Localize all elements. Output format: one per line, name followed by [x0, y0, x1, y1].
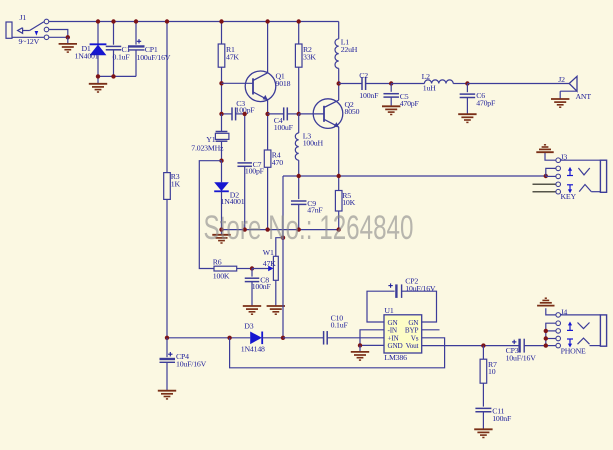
junction J4 pin5 [544, 343, 548, 347]
svg-text:Vout: Vout [406, 342, 419, 350]
junction L1 C2 [337, 81, 341, 85]
ground U1 [351, 345, 369, 360]
pin label Vs [411, 334, 419, 342]
label D2 [230, 191, 239, 200]
svg-text:KEY: KEY [561, 192, 577, 201]
capacitor C11 [475, 408, 491, 429]
crystal Y1 [215, 114, 229, 161]
resistor R1 [218, 44, 225, 67]
svg-text:R6: R6 [213, 258, 222, 267]
connector J1 [6, 19, 49, 39]
svg-text:100pF: 100pF [245, 167, 265, 176]
label L1 value [341, 45, 358, 54]
label C1 [122, 45, 131, 54]
label C1 value [113, 52, 131, 61]
ground J3 [536, 145, 553, 152]
label L3 [303, 132, 312, 141]
label D1 [82, 44, 91, 53]
junction R1 base node [219, 81, 223, 85]
connector J4 [546, 308, 607, 348]
ground C5 [382, 106, 400, 114]
junction top rail R1 [219, 19, 223, 23]
label C8 value [252, 282, 272, 291]
svg-text:W1: W1 [263, 248, 274, 257]
svg-text:10uF/16V: 10uF/16V [176, 359, 207, 368]
label L3 value [303, 138, 324, 147]
capacitor CP2 [367, 283, 437, 322]
label L2 value [423, 83, 436, 92]
wire J1 sleeve [49, 36, 68, 38]
junction Q2 base node [297, 112, 301, 116]
junction gnd bus R4 [265, 227, 269, 231]
inductor L3 [295, 114, 298, 176]
svg-text:-IN: -IN [388, 327, 398, 335]
capacitor C5 [383, 84, 399, 107]
resistor R4 [264, 114, 271, 230]
pin label GN left [388, 319, 399, 327]
resistor R5 [335, 176, 342, 230]
resistor R7 [480, 346, 487, 407]
label PHONE [561, 346, 586, 355]
pin label +IN [388, 334, 400, 342]
junction J4 pin3 [544, 329, 548, 333]
junction gnd bus C7 [243, 227, 247, 231]
diode D2 [214, 161, 229, 230]
svg-text:10uF/16V: 10uF/16V [405, 284, 436, 293]
label C3 [236, 99, 245, 108]
label Q1 value [276, 79, 291, 88]
svg-text:LM386: LM386 [384, 353, 407, 362]
junction R6 C8 W1 [250, 266, 254, 270]
label R2 value [303, 53, 316, 62]
wire Q1 base [222, 82, 254, 84]
svg-text:100K: 100K [213, 272, 230, 281]
label L2 [422, 72, 431, 81]
svg-text:9~12V: 9~12V [19, 37, 40, 46]
label R5 value [342, 198, 355, 207]
resistor R6 [214, 266, 252, 271]
svg-text:10uF/16V: 10uF/16V [506, 354, 537, 363]
wire R2 top [298, 22, 300, 45]
svg-text:470pF: 470pF [476, 99, 496, 108]
wire BYP stub [422, 329, 440, 331]
label C8 [260, 275, 269, 284]
junction bottom C1 [111, 74, 115, 78]
svg-text:L2: L2 [422, 72, 431, 81]
svg-text:1N4001: 1N4001 [75, 52, 99, 61]
svg-text:1uH: 1uH [423, 83, 436, 92]
capacitor C2 [339, 77, 392, 90]
junction top rail R2 [297, 19, 301, 23]
connector J2 [560, 76, 577, 99]
svg-text:J4: J4 [561, 307, 568, 316]
label KEY [561, 192, 577, 201]
junction gnd bus C9 [297, 227, 301, 231]
svg-text:22uH: 22uH [341, 45, 358, 54]
wire Q2 base [299, 113, 324, 115]
svg-text:Store No.: 1264840: Store No.: 1264840 [204, 209, 414, 247]
label R3 value [171, 179, 181, 188]
wire top power rail [49, 21, 339, 23]
resistor R3 [164, 173, 171, 200]
label C2 value [359, 91, 379, 100]
svg-text:100uF: 100uF [274, 123, 294, 132]
label C10 [331, 313, 344, 322]
potentiometer W1 [252, 238, 283, 306]
capacitor C7 [237, 114, 252, 230]
label C9 [307, 199, 316, 208]
ground J2 [551, 99, 569, 107]
ground D2 bus [212, 230, 230, 243]
label R5 [342, 191, 351, 200]
svg-text:+IN: +IN [388, 334, 400, 342]
junction KEY rail J3 [544, 174, 548, 178]
label J4 [561, 307, 568, 316]
wire ground bus [222, 229, 339, 231]
resistor R2 [295, 44, 302, 67]
svg-text:1N4001: 1N4001 [221, 197, 245, 206]
label R3 [171, 172, 180, 181]
svg-text:10K: 10K [342, 198, 355, 207]
junction top rail Q1 collector [265, 19, 269, 23]
junction top rail C1 [111, 19, 115, 23]
capacitor C3 [222, 107, 245, 120]
svg-text:D3: D3 [244, 322, 253, 331]
junction audio rail Vs tap [227, 336, 231, 340]
label U1 [384, 306, 393, 315]
label J1 [20, 13, 27, 22]
label R7 value [488, 367, 496, 376]
capacitor C9 [291, 176, 307, 230]
capacitor C4 [268, 107, 299, 120]
junction top rail D1 [96, 19, 100, 23]
junction gnd bus D2 [219, 227, 223, 231]
svg-text:9018: 9018 [276, 79, 291, 88]
label C6 [476, 91, 485, 100]
svg-text:8050: 8050 [345, 107, 360, 116]
svg-text:C2: C2 [359, 71, 368, 80]
svg-text:J2: J2 [558, 75, 565, 84]
label C7 [253, 160, 262, 169]
label C6 value [476, 99, 496, 108]
junction base net R4 [265, 112, 269, 116]
svg-text:Vs: Vs [411, 334, 419, 342]
junction U1 GND [358, 343, 362, 347]
svg-text:100uH: 100uH [303, 138, 324, 147]
label CP1 [145, 45, 158, 54]
label ANT [576, 92, 592, 101]
svg-text:1K: 1K [171, 179, 181, 188]
label LM386 [384, 353, 407, 362]
wire Vs feed [230, 338, 445, 368]
svg-text:J3: J3 [561, 152, 568, 161]
ground J4 [537, 298, 554, 305]
junction top rail left branch [165, 19, 169, 23]
wire J1 ring [49, 30, 68, 38]
wire R2 bottom [298, 67, 300, 114]
junction gnd bus R5 [337, 227, 341, 231]
svg-text:J1: J1 [20, 13, 27, 22]
transistor Q2 [313, 84, 343, 177]
svg-text:100uF/16V: 100uF/16V [137, 53, 171, 62]
pin label GN right [408, 319, 419, 327]
capacitor CP1 [128, 22, 145, 77]
label R7 [488, 360, 497, 369]
wire to antenna [467, 83, 569, 85]
inductor L1 [335, 22, 339, 84]
capacitor CP4 [160, 338, 176, 391]
label CP2 value [405, 284, 436, 293]
ground C11 [474, 429, 492, 437]
label Q2 [345, 100, 354, 109]
label Y1 [206, 135, 215, 144]
label Q2 value [345, 107, 360, 116]
ground CP4 [158, 391, 176, 399]
junction audio rail W1 branch [281, 336, 285, 340]
label R4 value [272, 158, 283, 167]
diode D3 [250, 332, 283, 345]
svg-text:7.023MHz: 7.023MHz [191, 143, 224, 152]
label L1 [341, 37, 350, 46]
svg-text:1N4148: 1N4148 [241, 344, 265, 353]
svg-text:0.1uF: 0.1uF [113, 52, 131, 61]
label C10 value [331, 321, 349, 330]
label Y1 value [191, 143, 224, 152]
label W1 [263, 248, 274, 257]
svg-text:BYP: BYP [405, 327, 419, 335]
label C7 value [245, 167, 265, 176]
label CP1 value [137, 53, 171, 62]
diode D1 [90, 22, 107, 77]
label J3 [561, 152, 568, 161]
capacitor C1 [106, 22, 122, 77]
label J2 [558, 75, 565, 84]
svg-text:47K: 47K [226, 53, 239, 62]
wire audio rail left [167, 337, 250, 339]
label R4 [272, 150, 281, 159]
label CP4 [176, 352, 189, 361]
label C11 value [492, 414, 512, 423]
label C5 [400, 92, 409, 101]
junction audio rail CP4 [165, 336, 169, 340]
junction C2 C5 L2 [389, 81, 393, 85]
ground W1 [267, 306, 285, 314]
label C9 value [307, 206, 323, 215]
label CP3 [506, 346, 519, 355]
junction base net C7 [243, 112, 247, 116]
label D1 value [75, 52, 99, 61]
label Q1 [276, 71, 285, 80]
svg-text:100nF: 100nF [359, 91, 379, 100]
pin label -IN [388, 327, 398, 335]
junction KEY rail R5 [337, 174, 341, 178]
label D3 value [241, 344, 265, 353]
wire R1 top [221, 22, 223, 45]
label W1 value [263, 259, 276, 268]
svg-text:10: 10 [488, 367, 496, 376]
wire Y1 to R6 [199, 161, 221, 269]
label C4 [274, 116, 283, 125]
wire R1 bottom [221, 67, 223, 114]
ground J1 [59, 37, 77, 52]
svg-text:GND: GND [388, 342, 403, 350]
ground C8 [243, 306, 261, 314]
junction Y1 bottom [219, 159, 223, 163]
label D2 value [221, 197, 245, 206]
wire left branch lower [166, 199, 168, 337]
wire KEY rail [283, 175, 546, 177]
label R6 [213, 258, 222, 267]
ground C6 [458, 114, 476, 122]
label C3 value [236, 106, 256, 115]
ic U1 LM386 body [384, 315, 422, 353]
wire D1 C1 CP1 bottom [98, 75, 136, 77]
svg-text:ANT: ANT [576, 92, 592, 101]
label D3 [244, 322, 253, 331]
watermark [204, 209, 414, 247]
label CP4 value [176, 359, 207, 368]
label R1 value [226, 53, 239, 62]
label R1 [226, 45, 235, 54]
junction J4 pin4 [544, 336, 548, 340]
svg-text:100nF: 100nF [252, 282, 272, 291]
junction Vout R7 [481, 343, 485, 347]
svg-text:470pF: 470pF [400, 99, 420, 108]
wire KEY branch vertical [282, 176, 284, 338]
pin label Vout [406, 342, 419, 350]
svg-text:0.1uF: 0.1uF [331, 321, 349, 330]
pin label GND [388, 342, 403, 350]
connector J3 [533, 153, 607, 194]
label CP2 [405, 277, 418, 286]
junction bottom D1 [96, 74, 100, 78]
ground D1 [89, 76, 107, 92]
svg-text:U1: U1 [384, 306, 393, 315]
capacitor C10 [324, 331, 384, 345]
wire left branch upper [166, 22, 168, 173]
svg-text:100nF: 100nF [492, 414, 512, 423]
wire audio rail mid [283, 337, 323, 339]
svg-text:PHONE: PHONE [561, 346, 586, 355]
junction J1 ground node [66, 35, 70, 39]
svg-text:470: 470 [272, 158, 283, 167]
label 9~12V [19, 37, 40, 46]
junction L2 C6 [465, 81, 469, 85]
svg-text:47K: 47K [263, 259, 276, 268]
junction W1 tap [281, 236, 285, 240]
junction top rail CP1 [134, 19, 138, 23]
junction base net C3 [219, 112, 223, 116]
label C11 [492, 407, 504, 416]
svg-text:33K: 33K [303, 53, 316, 62]
label C2 [359, 71, 368, 80]
capacitor C6 [460, 84, 476, 114]
capacitor C8 [245, 269, 260, 306]
wire Vout [422, 345, 519, 347]
transistor Q1 [245, 22, 276, 114]
wire -IN to GND [360, 330, 384, 346]
label R2 [303, 45, 312, 54]
pin label BYP [405, 327, 419, 335]
label R6 value [213, 272, 230, 281]
junction KEY rail C9 [297, 174, 301, 178]
label CP3 value [506, 354, 537, 363]
capacitor CP3 [512, 339, 546, 353]
label C4 value [274, 123, 294, 132]
inductor L2 [391, 80, 467, 84]
label C5 value [400, 99, 420, 108]
